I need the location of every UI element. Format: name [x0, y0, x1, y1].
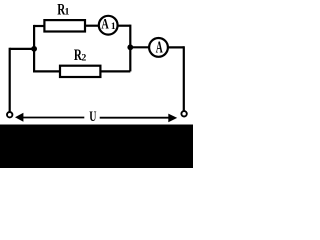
voltage arrow right (points to right terminal) — [100, 117, 169, 119]
svg-text:A: A — [101, 17, 109, 33]
resistor R1 — [44, 20, 85, 31]
node right junction — [127, 44, 133, 50]
ammeter A1 — [99, 16, 118, 35]
resistor R2 — [60, 66, 100, 77]
svg-text:2: 2 — [81, 52, 86, 63]
caption bar — [0, 125, 193, 169]
wire right vertical between branches — [129, 25, 131, 72]
wire junction to ammeter A — [130, 46, 149, 48]
voltage arrow left (points to left terminal) — [23, 117, 85, 119]
wire left rail vertical down to terminal — [9, 48, 11, 112]
wire R2 right lead — [100, 70, 130, 72]
wire left rail horizontal — [10, 48, 34, 50]
wire left vertical between R1 and R2 branches — [33, 25, 35, 72]
wire right rail vertical — [183, 46, 185, 111]
svg-text:U: U — [89, 109, 96, 125]
svg-text:1: 1 — [111, 21, 116, 32]
wire A right lead to right rail — [168, 46, 184, 48]
terminal left — [7, 112, 12, 117]
wire R2 left lead — [33, 70, 60, 72]
node left junction — [31, 46, 37, 52]
wire top-left branch: R1 left lead — [34, 25, 44, 27]
wire A1 right lead — [118, 25, 131, 27]
wire R1 right lead to ammeter A1 — [85, 25, 99, 27]
svg-text:A: A — [156, 37, 163, 56]
svg-text:1: 1 — [65, 7, 70, 18]
ammeter A — [149, 38, 168, 57]
terminal right — [181, 111, 186, 116]
